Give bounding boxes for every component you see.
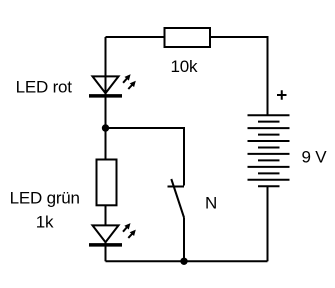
svg-text:LED grün: LED grün [10, 188, 80, 207]
wire switch to bottom [183, 218, 185, 262]
wire left rail top [105, 37, 107, 128]
LED rot D1 [89, 74, 136, 96]
svg-text:10k: 10k [171, 57, 199, 76]
wire node A down [105, 128, 107, 160]
wire bottom [106, 260, 268, 262]
wire node A to switch [106, 128, 185, 186]
resistor 1k [97, 160, 117, 206]
svg-text:N: N [205, 194, 217, 213]
junction bottom node [180, 258, 187, 265]
svg-text:1k: 1k [36, 213, 54, 232]
resistor 10k [165, 28, 211, 47]
wire LED gruen down [105, 242, 107, 261]
svg-text:LED rot: LED rot [16, 78, 73, 97]
label + [277, 90, 287, 100]
junction node A [102, 124, 109, 131]
wire right-bottom [267, 186, 269, 261]
wire top-right [210, 37, 268, 115]
LED gruen D2 [89, 223, 136, 245]
svg-text:9 V: 9 V [302, 148, 328, 167]
wire 1k to LED gruen [105, 205, 107, 225]
wire top-left [106, 36, 165, 38]
battery 9V [248, 115, 290, 186]
switch N [168, 179, 185, 218]
